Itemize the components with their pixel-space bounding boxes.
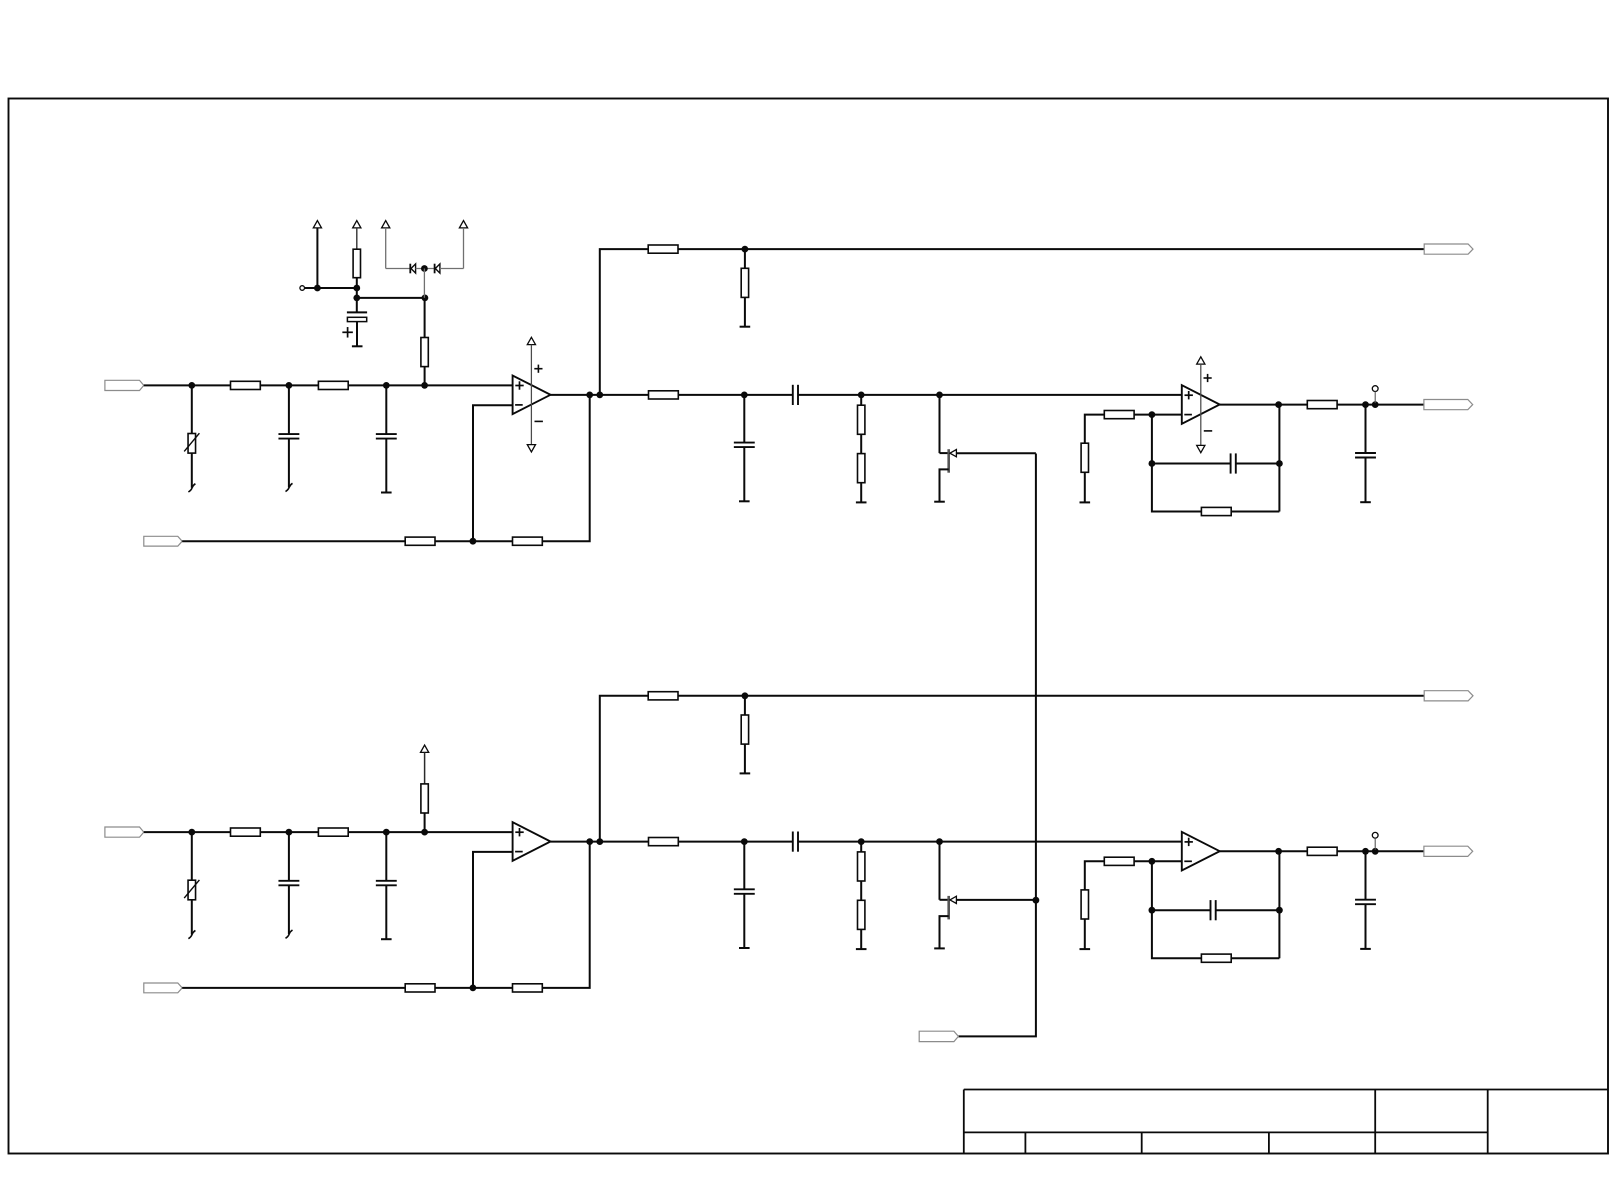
node feedback junction F1: [470, 538, 477, 545]
ground of C22: [381, 938, 392, 940]
wire shunt cap C14 lower lead: [743, 447, 745, 501]
node test point tap: [1372, 848, 1379, 855]
node feedback right junction: [1276, 460, 1283, 467]
node divider tap: [858, 838, 865, 845]
resistor R15 (feedback): [513, 537, 543, 545]
op-amp U2B: [1182, 832, 1220, 871]
node mute JFET drain tap: [936, 838, 943, 845]
capacitor C25 (feedback): [1210, 900, 1212, 920]
node input junction C2: [383, 829, 390, 836]
power symbol V+ above R23: [421, 745, 429, 752]
wire cap C11 branch upper: [288, 385, 290, 434]
node input junction A1: [188, 382, 195, 389]
wire input line to op-amp U2A +: [144, 831, 513, 833]
wire output cap upper lead: [1365, 405, 1367, 453]
node U2A output feedback tap: [586, 838, 593, 845]
node bias junction D2: [421, 829, 428, 836]
wire feedback resistor loop right: [1231, 511, 1279, 513]
op-amp U2A: [513, 822, 551, 861]
capacitor C21: [278, 880, 299, 882]
wire cap C22 branch upper: [385, 832, 387, 881]
node mute JFET drain tap: [936, 392, 943, 399]
title block divider a: [1024, 1132, 1026, 1153]
resistor R28: [649, 838, 679, 846]
wire ground leg lower lead: [1084, 472, 1086, 502]
wire input line to op-amp U1A +: [144, 384, 513, 386]
wire cap C12 branch upper: [385, 385, 387, 434]
node output cap tap: [1362, 848, 1369, 855]
node input junction C1: [383, 382, 390, 389]
ground of R112: [1080, 501, 1091, 503]
capacitor C7 (electrolytic bias): [347, 311, 367, 313]
wire cap C22 branch lower: [385, 885, 387, 939]
node bias junction lower: [353, 295, 360, 302]
wire bus shunt resistor lower lead: [744, 297, 746, 326]
wire cap C21 branch upper: [288, 832, 290, 881]
varistor RV2 diagonal stroke: [184, 880, 199, 898]
wire U2A output up to bus: [600, 696, 648, 842]
resistor R214 (output series): [1307, 847, 1337, 855]
node U2A output bus tap: [596, 838, 603, 845]
node shunt cap tap: [741, 838, 748, 845]
wire bus line to output connector: [678, 695, 1424, 697]
wire divider lower lead: [860, 483, 862, 503]
wire shunt cap C24 upper lead: [743, 842, 745, 890]
ground of R110: [856, 501, 867, 503]
node feedback junction F2: [470, 985, 477, 992]
capacitor C13 (coupling): [792, 385, 794, 405]
power symbol V- of U1B: [1197, 445, 1205, 452]
ground of C7: [352, 345, 363, 347]
ground of R210: [856, 948, 867, 950]
node feedback left junction: [1149, 907, 1156, 914]
node U2B inverting junction: [1149, 858, 1156, 865]
resistor R19 (divider upper): [858, 405, 865, 434]
resistor R212 (ground leg): [1081, 890, 1088, 919]
ground of R212: [1080, 948, 1091, 950]
label + supply of U1B: [1204, 377, 1212, 379]
wire feedback line left segment: [182, 540, 405, 542]
node input junction B1: [286, 382, 293, 389]
wire varistor RV2 branch: [191, 832, 193, 934]
resistor R24 (feedback): [405, 984, 435, 992]
wire U1B supply rail vertical: [1200, 364, 1202, 445]
ground of R27: [740, 772, 751, 774]
power symbol V+ (arrow 1): [313, 221, 321, 228]
capacitor C26 (output): [1355, 899, 1376, 901]
node output cap tap: [1362, 401, 1369, 408]
wire electrolytic cap upper lead: [356, 298, 358, 313]
title block left edge: [963, 1090, 965, 1153]
wire to coupling cap C23: [678, 841, 793, 843]
wire feedback cap left segment: [1152, 463, 1231, 465]
resistor R210 (divider lower): [858, 900, 865, 929]
bus output connector P2: [1424, 691, 1473, 701]
wire cap C11 branch lower: [288, 439, 290, 488]
node input junction B2: [286, 829, 293, 836]
wire bus shunt resistor upper lead: [744, 249, 746, 268]
node input junction A2: [188, 829, 195, 836]
wire to coupling cap C13: [678, 394, 793, 396]
resistor R110 (divider lower): [858, 454, 865, 483]
ground of R17: [740, 326, 751, 328]
wire U1B inv down to feedback: [1151, 415, 1153, 464]
wire diode string left: [386, 268, 411, 270]
input connector J1 (INL): [105, 380, 144, 390]
node diode midpoint: [421, 265, 428, 272]
ground of C12: [381, 492, 392, 494]
wire U1B inverting input stub: [1134, 414, 1182, 416]
wire divider lower lead: [860, 929, 862, 949]
power symbol V+ (arrow 3): [382, 221, 390, 228]
wire U1A supply rail vertical: [530, 345, 532, 445]
wire bias to diode string: [357, 297, 425, 299]
title block divider e: [1487, 1090, 1489, 1153]
node U1A output feedback tap: [586, 392, 593, 399]
capacitor C23 (coupling): [792, 832, 794, 852]
wire feedback mid segment: [435, 987, 513, 989]
test point TP1: [1372, 386, 1378, 392]
wire between divider resistors: [860, 881, 862, 900]
bus output connector P1: [1424, 244, 1473, 254]
resistor R26 (bus series): [648, 692, 678, 700]
wire U1B output line: [1220, 404, 1424, 406]
resistor R114 (output series): [1307, 401, 1337, 409]
wire feedback up to U1A output: [542, 395, 589, 541]
wire cap C12 branch lower: [385, 439, 387, 493]
varistor RV1 diagonal stroke: [184, 433, 199, 451]
title block divider c: [1268, 1132, 1270, 1153]
resistor R213 (feedback): [1201, 954, 1231, 962]
node U1B inverting junction: [1149, 411, 1156, 418]
label + of C7: [342, 331, 353, 333]
label - supply of U1A: [535, 420, 543, 422]
diode D2: [434, 264, 436, 274]
resistor R211 (gain set): [1104, 857, 1134, 865]
capacitor C24: [734, 888, 755, 890]
power symbol V+ (arrow 4): [459, 221, 467, 228]
resistor R27 (bus shunt): [741, 715, 748, 744]
resistor R11: [231, 381, 261, 389]
resistor R22: [318, 828, 348, 836]
node test point tap: [1372, 401, 1379, 408]
wire divider upper lead: [860, 395, 862, 405]
output connector OUTL: [1424, 400, 1473, 410]
wire output cap lower lead: [1365, 904, 1367, 949]
wire U2B inverting input stub: [1134, 860, 1182, 862]
wire divider upper lead: [860, 842, 862, 852]
wire feedback cap right segment: [1236, 463, 1280, 465]
wire U1A inverting input to feedback node: [473, 405, 513, 541]
wire shunt cap C14 upper lead: [743, 395, 745, 443]
chassis ground of C11: [286, 483, 293, 491]
title block top line: [964, 1089, 1608, 1091]
wire gain resistor to ground leg: [1085, 861, 1105, 890]
wire bias entry to divider: [305, 287, 357, 289]
wire U2A inverting input to feedback node: [473, 852, 513, 988]
power symbol V+ of U1A: [527, 337, 535, 344]
op-amp U1A: [513, 376, 551, 415]
title block divider d: [1374, 1090, 1376, 1153]
wire output cap upper lead: [1365, 851, 1367, 899]
node diode string tap: [422, 295, 429, 302]
feedback return connector FB1: [144, 536, 182, 546]
wire U2B output down through feedback: [1278, 851, 1280, 958]
wire ground leg lower lead: [1084, 919, 1086, 949]
diode D1: [409, 264, 411, 274]
resistor R17 (bus shunt): [741, 268, 748, 297]
title block divider b: [1141, 1132, 1143, 1153]
chassis ground of C21: [286, 930, 293, 938]
wire U1B output down through feedback: [1278, 405, 1280, 512]
node U1A output bus tap: [596, 392, 603, 399]
capacitor C12: [376, 433, 397, 435]
wire diode midpoint down: [423, 269, 425, 298]
transistor Q2 (mute JFET): [939, 842, 941, 900]
node bus junction: [742, 692, 749, 699]
wire diode string right: [440, 268, 464, 270]
wire mute control net: [958, 454, 1036, 1037]
feedback return connector FB2: [144, 983, 182, 993]
resistor R29 (divider upper): [858, 852, 865, 881]
wire feedback up to U2A output: [542, 842, 589, 988]
wire feedback cap right segment: [1216, 909, 1280, 911]
node shunt cap tap: [741, 392, 748, 399]
wire feedback cap left segment: [1152, 909, 1211, 911]
node bias entry terminal: [300, 286, 305, 291]
node power arrow 1 tap: [314, 285, 321, 292]
varistor RV1 body: [188, 434, 196, 454]
wire bias resistor R23 lower lead: [424, 813, 426, 832]
wire shunt cap C24 lower lead: [743, 894, 745, 948]
node divider tap: [858, 392, 865, 399]
transistor Q1 (mute JFET): [939, 395, 941, 453]
wire gain resistor to ground leg: [1085, 415, 1105, 444]
capacitor C14: [734, 442, 755, 444]
resistor R112 (ground leg): [1081, 443, 1088, 472]
wire between diodes: [416, 268, 435, 270]
title block middle horizontal line: [964, 1131, 1488, 1133]
label - supply of U1B: [1204, 430, 1212, 432]
wire bias junction down to R13: [424, 298, 426, 338]
node feedback right junction: [1276, 907, 1283, 914]
label + supply of U1A: [534, 368, 542, 370]
ground of C14: [739, 500, 750, 502]
wire varistor RV1 branch: [191, 385, 193, 487]
wire coupling cap to U2B + input: [798, 841, 1182, 843]
capacitor C11: [278, 433, 299, 435]
test point TP2: [1372, 832, 1378, 838]
resistor R18: [649, 391, 679, 399]
resistor R111 (gain set): [1104, 411, 1134, 419]
wire U2B output line: [1220, 850, 1424, 852]
wire U1A output: [551, 394, 649, 396]
chassis ground of RV1: [188, 484, 195, 492]
node bus junction: [742, 246, 749, 253]
input connector J2 (INR): [105, 827, 144, 837]
power symbol V+ of U1B: [1197, 357, 1205, 364]
power symbol V+ (arrow 2): [353, 221, 361, 228]
resistor R23 (bias): [421, 784, 428, 813]
wire feedback line left segment: [182, 987, 405, 989]
resistor R16 (bus series): [648, 245, 678, 253]
power symbol V- of U1A: [527, 445, 535, 452]
varistor RV2 body: [188, 880, 196, 900]
wire U1A output up to bus: [600, 249, 648, 395]
wire feedback resistor loop right: [1231, 957, 1279, 959]
resistor R15 (bias pull-up): [353, 249, 360, 278]
wire output cap lower lead: [1365, 458, 1367, 503]
op-amp U1B: [1182, 385, 1220, 424]
capacitor C22: [376, 880, 397, 882]
wire U2A output: [551, 841, 649, 843]
capacitor C15 (feedback): [1230, 453, 1232, 473]
chassis ground of RV2: [188, 930, 195, 938]
wire bus line to output connector: [678, 248, 1424, 250]
ground of C24: [739, 947, 750, 949]
wire feedback resistor loop left: [1152, 464, 1202, 512]
node bias junction D1: [421, 382, 428, 389]
node U1B output junction: [1275, 401, 1282, 408]
wire U2B inv down to feedback: [1151, 861, 1153, 910]
wire cap C21 branch lower: [288, 885, 290, 934]
node mute gate tap (channel 2): [1033, 897, 1040, 904]
resistor R25 (feedback): [513, 984, 543, 992]
wire feedback resistor loop left: [1152, 910, 1202, 958]
node bias junction upper: [353, 285, 360, 292]
resistor R12: [318, 381, 348, 389]
resistor R14 (feedback): [405, 537, 435, 545]
wire bus shunt resistor lower lead: [744, 744, 746, 773]
node U2B output junction: [1275, 848, 1282, 855]
wire feedback mid segment: [435, 540, 513, 542]
mute control connector MUTE: [919, 1031, 958, 1041]
node feedback left junction: [1149, 460, 1156, 467]
output connector OUTR: [1424, 846, 1473, 856]
resistor R21: [231, 828, 261, 836]
resistor R13 (bias): [421, 338, 428, 367]
wire bias resistor R13 lower lead: [424, 366, 426, 385]
wire coupling cap to U1B + input: [798, 394, 1182, 396]
ground of C16: [1360, 501, 1371, 503]
wire between divider resistors: [860, 434, 862, 453]
resistor R113 (feedback): [1201, 507, 1231, 515]
wire bias divider mid: [356, 278, 358, 298]
wire bus shunt resistor upper lead: [744, 696, 746, 715]
capacitor C16 (output): [1355, 452, 1376, 454]
ground of C26: [1360, 948, 1371, 950]
wire electrolytic cap lower lead: [356, 322, 358, 347]
